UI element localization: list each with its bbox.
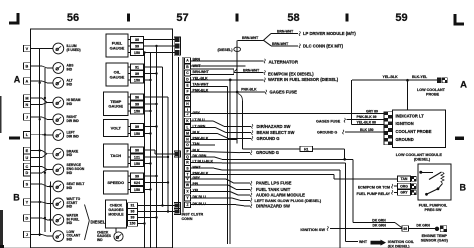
wire BRN-WHT diesel to fork [237,39,263,41]
svg-text:DK GRN: DK GRN [416,224,430,228]
lamp HI BEAM IND with connector pin(s) [23,95,80,108]
svg-text:IND: IND [67,205,73,209]
wire BRN pin A to ALTERNATOR [191,60,264,62]
wire junction [143,222,145,224]
svg-text:GAUGES: GAUGES [108,208,124,212]
wire GRY pin J to low coolant module GRY 89 [191,113,385,115]
svg-text:J: J [26,115,28,119]
pin GRY [398,189,411,195]
svg-text:GAUGE: GAUGE [110,74,125,79]
connector pin A [185,58,191,63]
connector pin X [185,189,191,194]
svg-text:LT GRN: LT GRN [193,125,206,129]
wire temp 39 [144,103,157,105]
wire junction [155,45,157,47]
svg-text:AUDIO ALARM MODULE: AUDIO ALARM MODULE [256,193,305,198]
wire module 39 to rail [138,217,157,219]
svg-text:Y: Y [26,200,29,204]
wire junction [44,217,46,219]
svg-text:30: 30 [135,148,139,152]
svg-text:39: 39 [135,72,139,76]
page edge artifact left lower [0,210,3,248]
lamp BRAKE IND with connector pin(s) [23,147,79,160]
svg-text:GROUND G: GROUND G [256,150,279,155]
lamp LEFT DIR IND with connector pin(s) [23,130,79,141]
svg-text:MODULE: MODULE [108,213,124,217]
svg-text:DK BLU: DK BLU [193,195,207,199]
diesel branch riser with inline connector [218,40,241,143]
svg-text:BRN-WHT: BRN-WHT [243,68,260,72]
wire temp 36 [144,96,169,98]
svg-text:YEL: YEL [193,189,201,193]
connector pin V [185,176,191,181]
wire BLK pin M to GROUND G [191,132,218,134]
wire probe branch down to module [407,80,409,110]
svg-text:B: B [26,64,29,68]
page bottom edge line [0,245,4,248]
wire tach 121 [144,156,169,158]
wire DK BLU pin Z to DIR/HAZARD SW [191,204,237,206]
svg-text:150: 150 [134,162,140,166]
svg-text:TAN: TAN [193,142,200,146]
svg-text:LOW COOLANT MODULE: LOW COOLANT MODULE [396,153,443,157]
svg-text:SENSOR (GAS): SENSOR (GAS) [421,238,449,242]
svg-text:624: 624 [134,181,141,185]
connector pin T [185,172,191,177]
svg-text:O: O [186,143,189,147]
svg-text:BRN-WHT: BRN-WHT [277,30,294,34]
wire fork to LP DRIVER MODULE (M/T) [264,34,272,41]
wire junction [167,181,169,183]
cluster edge pin T [174,151,180,157]
wire tach 30 to pin T [144,149,156,151]
grid row divider dash left [9,137,20,140]
wire TAN pin T to fuel pump/oil pres sw [191,174,335,176]
svg-text:GROUND G: GROUND G [257,136,280,141]
grid corner mark top-right [453,14,464,26]
wire junction [167,210,169,212]
svg-text:U: U [26,156,29,160]
svg-text:GAGES FUSE: GAGES FUSE [270,90,298,95]
connector ENGINE TEMP SENSOR [435,226,447,232]
lamp SEAT BELT IND with connector pin(s) [23,181,84,192]
wire junction [149,162,151,164]
inline connector 89 [402,226,409,232]
svg-text:36: 36 [131,210,135,214]
connector pin H [185,101,191,106]
svg-text:PANEL LPS FUSE: PANEL LPS FUSE [256,181,292,186]
wire junction [39,82,41,84]
svg-text:(5 USED): (5 USED) [67,48,81,52]
long vertical wire [227,86,229,244]
connector pin Z [185,202,191,207]
wire junction [149,79,151,81]
svg-text:ENGINE TEMP: ENGINE TEMP [422,234,448,238]
svg-text:IND: IND [67,153,73,157]
gauge SPEEDO with pins 39/624/150 [104,171,144,194]
lamp ABS IND with connector pin(s) [23,63,74,74]
svg-text:FUEL PUMP RELAY: FUEL PUMP RELAY [357,192,391,196]
connector pin P [185,149,191,154]
svg-text:INDICATOR LT: INDICATOR LT [396,113,425,118]
svg-text:J: J [26,233,28,237]
rail 39 [156,46,158,248]
rail temp 36 to module [167,97,169,212]
lamp WAIT TO START IND with connector pin(s) [23,197,80,209]
svg-text:36: 36 [135,95,139,99]
svg-text:D: D [26,171,29,175]
connector pin Q [185,154,191,159]
svg-text:PNK-BLK 39: PNK-BLK 39 [357,115,377,119]
connector pin D [185,77,191,82]
svg-text:PROBE: PROBE [426,93,440,97]
wire WHT pin S to ignition coil row [191,162,223,164]
DIESEL group brace [85,205,90,221]
svg-text:DK BLU: DK BLU [193,202,207,206]
wire temp 150 [144,110,151,112]
grid ruler tick [346,14,349,22]
ignition rail [150,53,152,248]
wire PPL pin W to FUEL TANK UNIT [191,184,229,186]
svg-text:PPL: PPL [193,182,201,186]
pin TAN [398,176,411,182]
grid ruler tick [127,14,130,22]
connector pin F [185,89,191,94]
connector pin O [185,142,191,147]
svg-text:(EX DIESEL): (EX DIESEL) [388,244,410,248]
svg-text:150: 150 [134,109,140,113]
connector pin G [185,95,191,100]
svg-text:58: 58 [287,12,299,24]
connector pin N [185,137,191,142]
lamp RIGHT DIR IND with connector pin(s) [23,114,79,125]
svg-text:YEL-BLK: YEL-BLK [383,75,399,79]
svg-text:V: V [26,47,29,51]
svg-text:GROUND: GROUND [396,137,414,142]
wire branch down to module YEL-BLK 88 [351,80,353,124]
wire YEL-BLK pin D to WATER IN FUEL SENSOR [191,79,264,81]
wire DK GRN to engine temp sensor [409,227,436,229]
svg-text:DIESEL: DIESEL [91,219,106,224]
svg-text:IGNITION: IGNITION [396,121,414,126]
wire drop to DK GRN run [344,149,346,160]
svg-text:DIR/HAZARD SW: DIR/HAZARD SW [256,203,290,208]
wire BLK pin P to GROUND G [191,151,241,152]
ground rail [144,53,146,248]
svg-text:BRN-WHT: BRN-WHT [272,42,289,46]
wire pin R down off page [191,167,215,169]
wire junction [143,51,145,53]
svg-text:CHECK: CHECK [110,204,123,208]
svg-text:A: A [26,79,29,83]
svg-text:COOLANT PROBE: COOLANT PROBE [396,129,432,134]
svg-text:IND: IND [67,68,73,72]
svg-text:IND: IND [67,221,73,225]
svg-text:IND: IND [67,82,73,86]
FUEL PUMP/OIL PRES SW box [418,164,451,200]
svg-text:150: 150 [134,132,140,136]
lamp LOW COOLANT IND with connector pin(s) [23,230,80,242]
svg-text:56: 56 [67,12,79,24]
wire PNK-BLK pin F to GAGES FUSE [191,91,266,93]
svg-text:Z: Z [186,203,188,207]
svg-text:M: M [25,96,28,100]
grid corner mark top-left [9,13,20,25]
svg-text:LOW COOLANT: LOW COOLANT [417,88,446,92]
svg-text:Q: Q [186,155,189,159]
connector pin R [185,160,191,165]
wire YEL-BLK / BLK-YEL to low coolant probe [352,79,437,81]
wire branch to splice [238,94,243,102]
svg-text:PNK-BLK: PNK-BLK [241,87,257,91]
wire volt 39 [144,126,157,128]
svg-text:89: 89 [403,227,407,231]
wire junction [39,233,41,235]
gauge FUEL GAUGE with pins 30/39/150 [106,34,144,57]
svg-text:M: M [186,132,189,136]
bus wire (cluster left) [39,49,41,237]
INST CLSTR CONN body [178,57,180,213]
wire oil 150 [144,79,151,81]
LOW COOLANT MODULE (DIESEL) box [384,110,445,148]
svg-text:BLK 150: BLK 150 [360,128,374,132]
svg-text:DIR IND: DIR IND [67,119,80,123]
svg-text:H1: H1 [304,147,308,151]
svg-text:59: 59 [395,12,407,24]
svg-text:YEL-BLK 88: YEL-BLK 88 [357,121,377,125]
svg-text:TAN: TAN [401,177,408,181]
svg-text:FUEL PUMP/OIL: FUEL PUMP/OIL [419,203,448,207]
svg-text:DLC CONN (EX M/T): DLC CONN (EX M/T) [303,44,344,49]
svg-text:F: F [186,90,188,94]
svg-text:ALTERNATOR: ALTERNATOR [269,60,299,65]
wire speedo 624 [144,182,169,184]
wire junction [44,172,46,174]
wire junction [406,79,409,82]
wire DK GRN pin Q to engine temp sender [191,156,215,158]
svg-text:31: 31 [135,65,139,69]
lamp WATER IN FUEL IND with connector pin(s) [23,214,79,226]
connector pin L [185,125,191,130]
wire volt 150 [144,133,151,135]
connector pin E [185,83,191,88]
svg-text:VOLT: VOLT [111,125,122,130]
wire oil 39 [144,73,157,75]
cluster edge pin R [174,209,180,215]
svg-text:39: 39 [135,174,139,178]
wire module 36 to pin R [138,211,176,213]
svg-text:BLK: BLK [193,131,201,135]
wire fuel 39 [144,45,176,47]
svg-text:ECM/PCM OR TCM: ECM/PCM OR TCM [358,185,390,189]
svg-text:A: A [460,80,467,91]
svg-text:PNK-BLK: PNK-BLK [193,172,209,176]
svg-text:L: L [186,126,188,130]
wire module 31 to pin P [138,205,176,207]
svg-text:IND: IND [67,102,73,106]
wire junction [149,132,151,134]
svg-text:IND: IND [67,186,73,190]
wire GRY pin V to PANEL LPS FUSE [191,178,227,180]
wire junction [161,204,163,206]
wire junction [44,97,46,99]
wire BRN-WHT pin C to ECM/PCM [234,72,264,74]
svg-text:PRES SW: PRES SW [424,208,442,212]
wire junction [167,156,169,158]
Y merge into connector 89 [395,223,402,228]
wire speedo 150 [144,189,151,191]
svg-text:WHT: WHT [359,240,368,244]
lamp SERVICE ENG SOON IND with connector pin(s) [23,163,84,176]
svg-text:GROUND G: GROUND G [317,130,337,134]
connector pin M [185,131,191,136]
svg-text:DK GRN: DK GRN [373,224,387,228]
wire LT GRN pin L to BEAM SELECT SW [191,126,216,128]
cluster edge connector block W/F/G [174,37,180,55]
wire junction [39,201,41,203]
wire junction [155,103,157,105]
bus wire (cluster left) [44,68,46,232]
wire junction [49,219,51,221]
svg-text:E: E [26,149,29,153]
svg-text:WHT: WHT [193,165,202,169]
wire tach 150 [144,163,151,165]
rail oil 31 to module [162,67,164,206]
svg-text:150: 150 [134,51,140,55]
svg-text:39: 39 [131,216,135,220]
svg-text:C: C [26,165,29,169]
wire TAN pin O stub [191,144,216,146]
svg-text:IND: IND [67,171,73,175]
svg-text:DK GRN: DK GRN [372,219,386,223]
svg-text:LT BLU: LT BLU [193,118,206,122]
svg-text:WATER IN FUEL SENSOR (DIESEL): WATER IN FUEL SENSOR (DIESEL) [268,77,339,82]
svg-text:57: 57 [176,12,188,24]
connector pin Y [185,195,191,200]
wire junction [149,110,151,112]
wire DK BLU pin Y to LEFT BANK GLOW PLUGS [191,197,233,199]
wire WHT pin B [191,65,246,67]
long vertical wire [229,80,231,244]
svg-text:BEAM SELECT SW: BEAM SELECT SW [257,130,295,135]
svg-text:GAUGE: GAUGE [108,104,123,109]
svg-text:TACH: TACH [110,153,121,158]
svg-text:121: 121 [134,155,140,159]
svg-text:IND: IND [67,237,73,241]
gauge TACH with pins 30/121/150 [104,144,144,167]
svg-text:A: A [14,74,21,84]
wire junction [155,125,157,127]
wire through inline connector H1 [243,148,301,150]
svg-text:DIR/HAZARD SW: DIR/HAZARD SW [257,124,291,129]
svg-text:BRN-WHT: BRN-WHT [242,36,259,40]
svg-text:BLK-YEL: BLK-YEL [412,75,428,79]
lamp ALT IND with connector pin(s) [23,77,72,88]
svg-text:INST CLSTR: INST CLSTR [182,213,204,217]
wire junction [44,134,46,136]
connector pin K [185,118,191,123]
svg-text:ORG: ORG [400,185,408,189]
svg-text:150: 150 [130,222,136,226]
svg-text:SPEEDO: SPEEDO [107,180,124,185]
wire fork to DLC CONN (EX M/T) [264,40,272,46]
bus wire (cluster left) [49,182,51,232]
connector LOW COOLANT PROBE [437,78,448,83]
wire fuel 150 [144,52,176,54]
wire TAN-WHT pin E [191,85,228,87]
lamp ILLUM with connector pin(s) [23,43,80,54]
svg-text:LEFT BANK GLOW PLUGS (DIESEL): LEFT BANK GLOW PLUGS (DIESEL) [255,199,322,203]
svg-text:GAGES FUSE: GAGES FUSE [316,119,341,123]
svg-text:150: 150 [134,188,140,192]
svg-text:D: D [26,216,29,220]
wire junction [155,72,157,74]
svg-text:PNK-BLK: PNK-BLK [193,137,209,141]
svg-text:GRY: GRY [400,191,408,195]
cluster edge pin P [174,203,180,209]
boxed label BRN-WHT on pin C wire [191,69,234,75]
wire module 150 to rail [138,223,145,225]
wire YEL pin X to AUDIO ALARM MODULE [191,191,231,193]
connector pin J [185,111,191,116]
wire fuel 30 to pin W [144,39,176,41]
svg-text:39: 39 [135,44,139,48]
svg-text:39: 39 [135,102,139,106]
wire junction [149,188,151,190]
svg-text:FUEL TANK UNIT: FUEL TANK UNIT [256,187,291,192]
connector pin B [185,64,191,69]
svg-text:N: N [26,103,29,107]
svg-text:DIR IND: DIR IND [67,135,80,139]
gauge VOLT with pins 39/150 [104,120,144,137]
svg-text:30: 30 [135,38,139,42]
gauge TEMP GAUGE with pins 36/39/150 [104,92,144,116]
grid ruler tick [236,14,239,22]
svg-text:(DIESEL): (DIESEL) [414,158,431,162]
gauge OIL GAUGE with pins 31/39/150 [106,63,144,86]
pin ORG [398,183,411,189]
svg-text:GRY 89: GRY 89 [366,109,378,113]
wire junction [39,149,41,151]
svg-text:150: 150 [134,78,140,82]
connector pin S [185,166,191,171]
svg-text:B: B [13,193,20,203]
wire PNK-BLK pin N to riser [191,138,238,140]
wire junction [39,118,41,120]
connector pin W [185,182,191,187]
svg-text:BRN-WHT: BRN-WHT [193,70,210,74]
wire oil 31 [144,66,163,68]
connector pin I [185,107,191,112]
wire LT BLU pin K to DIR/HAZARD SW [191,120,214,122]
svg-text:B: B [459,183,466,193]
wire speedo 39 [144,175,157,177]
lamp CHECK GAUGES IND [97,228,123,242]
svg-text:GAUGE: GAUGE [110,45,125,50]
svg-text:GRY: GRY [193,176,201,180]
grid row divider dash right [455,137,464,140]
wire junction [155,175,157,177]
instrument cluster box [30,29,172,248]
svg-text:ECM/PCM (EX DIESEL): ECM/PCM (EX DIESEL) [268,71,314,76]
module wire YEL-BLK 88 [352,124,384,126]
svg-text:J: J [187,112,189,116]
svg-text:G: G [186,96,189,100]
svg-text:IND: IND [97,238,103,242]
svg-text:CONN: CONN [182,217,193,221]
connector pin C [185,70,191,75]
CHECK GAUGES MODULE with pins 31/36/39/150 [106,200,138,228]
